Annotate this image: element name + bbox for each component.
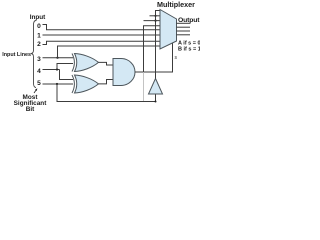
node buffer input corner (155, 101, 157, 103)
brace input lines (31, 21, 36, 88)
wire xor1 to and (99, 62, 114, 65)
wire tick2 (150, 15, 161, 17)
node input3 branch (56, 57, 58, 59)
wire buffer output (156, 11, 161, 79)
svg-text:5: 5 (37, 80, 41, 87)
xor gate XOR1 (72, 54, 99, 72)
xor gate XOR2 (72, 75, 99, 93)
wire and output to select (135, 42, 173, 72)
svg-text:B if s = 1: B if s = 1 (178, 47, 200, 53)
buffer triangle (149, 79, 163, 95)
wire input4 to xor2 (60, 70, 74, 80)
wire input 4 (43, 69, 60, 71)
node buffer tick2 (154, 15, 156, 17)
wire output 3 (177, 30, 191, 32)
wire input 5 (43, 83, 74, 85)
wire and branch to mux input (144, 26, 161, 72)
wire faint box edge (143, 72, 145, 101)
wire input4 to xor1 (57, 64, 73, 70)
wire input 0 (43, 25, 161, 30)
svg-text:3: 3 (37, 56, 41, 63)
wire tick3 (144, 20, 161, 22)
svg-text:Bit: Bit (26, 106, 35, 113)
wire output 4 (177, 34, 191, 36)
svg-text:4: 4 (37, 68, 41, 75)
and gate U3 (113, 59, 135, 86)
wire input 3 (43, 57, 74, 59)
wire input5 to buffer (57, 84, 156, 102)
arrow to MSB line (34, 90, 37, 94)
svg-text:2: 2 (37, 41, 41, 48)
wire input 2 (43, 41, 161, 44)
wire output 1 (177, 22, 191, 24)
wire input 1 (43, 34, 161, 36)
node buffer tick3 (154, 20, 156, 22)
multiplexer body (160, 10, 177, 50)
svg-text:Multiplexer: Multiplexer (157, 0, 195, 9)
svg-text:1: 1 (37, 32, 41, 39)
svg-text:Input Lines: Input Lines (2, 52, 31, 58)
node input4 branch (56, 68, 58, 70)
svg-text:Input: Input (30, 14, 46, 21)
wire xor2 to and (99, 80, 114, 84)
node input5 branch (56, 83, 58, 85)
wire output 2 (177, 26, 191, 28)
svg-text:0: 0 (37, 23, 41, 30)
wire input3 to mux (58, 46, 161, 58)
